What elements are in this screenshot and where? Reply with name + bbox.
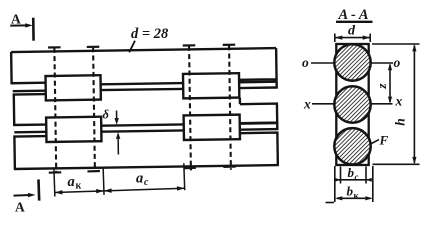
svg-text:d = 28: d = 28 [131, 26, 169, 42]
svg-text:A: A [11, 12, 21, 27]
svg-text:z: z [374, 83, 389, 90]
svg-text:δ: δ [103, 108, 110, 122]
svg-text:c: c [355, 172, 359, 182]
svg-text:к: к [76, 181, 82, 192]
svg-text:x: x [395, 94, 403, 109]
svg-text:o: o [302, 55, 309, 70]
svg-text:c: c [144, 177, 149, 188]
svg-text:x: x [303, 97, 311, 112]
svg-text:a: a [68, 174, 75, 190]
svg-text:b: b [348, 165, 355, 180]
svg-text:A: A [15, 200, 25, 215]
svg-text:F: F [379, 133, 389, 148]
svg-text:h: h [393, 118, 408, 126]
svg-text:o: o [394, 55, 401, 70]
svg-text:b: b [347, 184, 354, 199]
svg-text:A - A: A - A [338, 7, 369, 23]
svg-text:a: a [136, 171, 143, 187]
svg-text:d: d [348, 24, 356, 39]
svg-text:к: к [354, 191, 360, 201]
